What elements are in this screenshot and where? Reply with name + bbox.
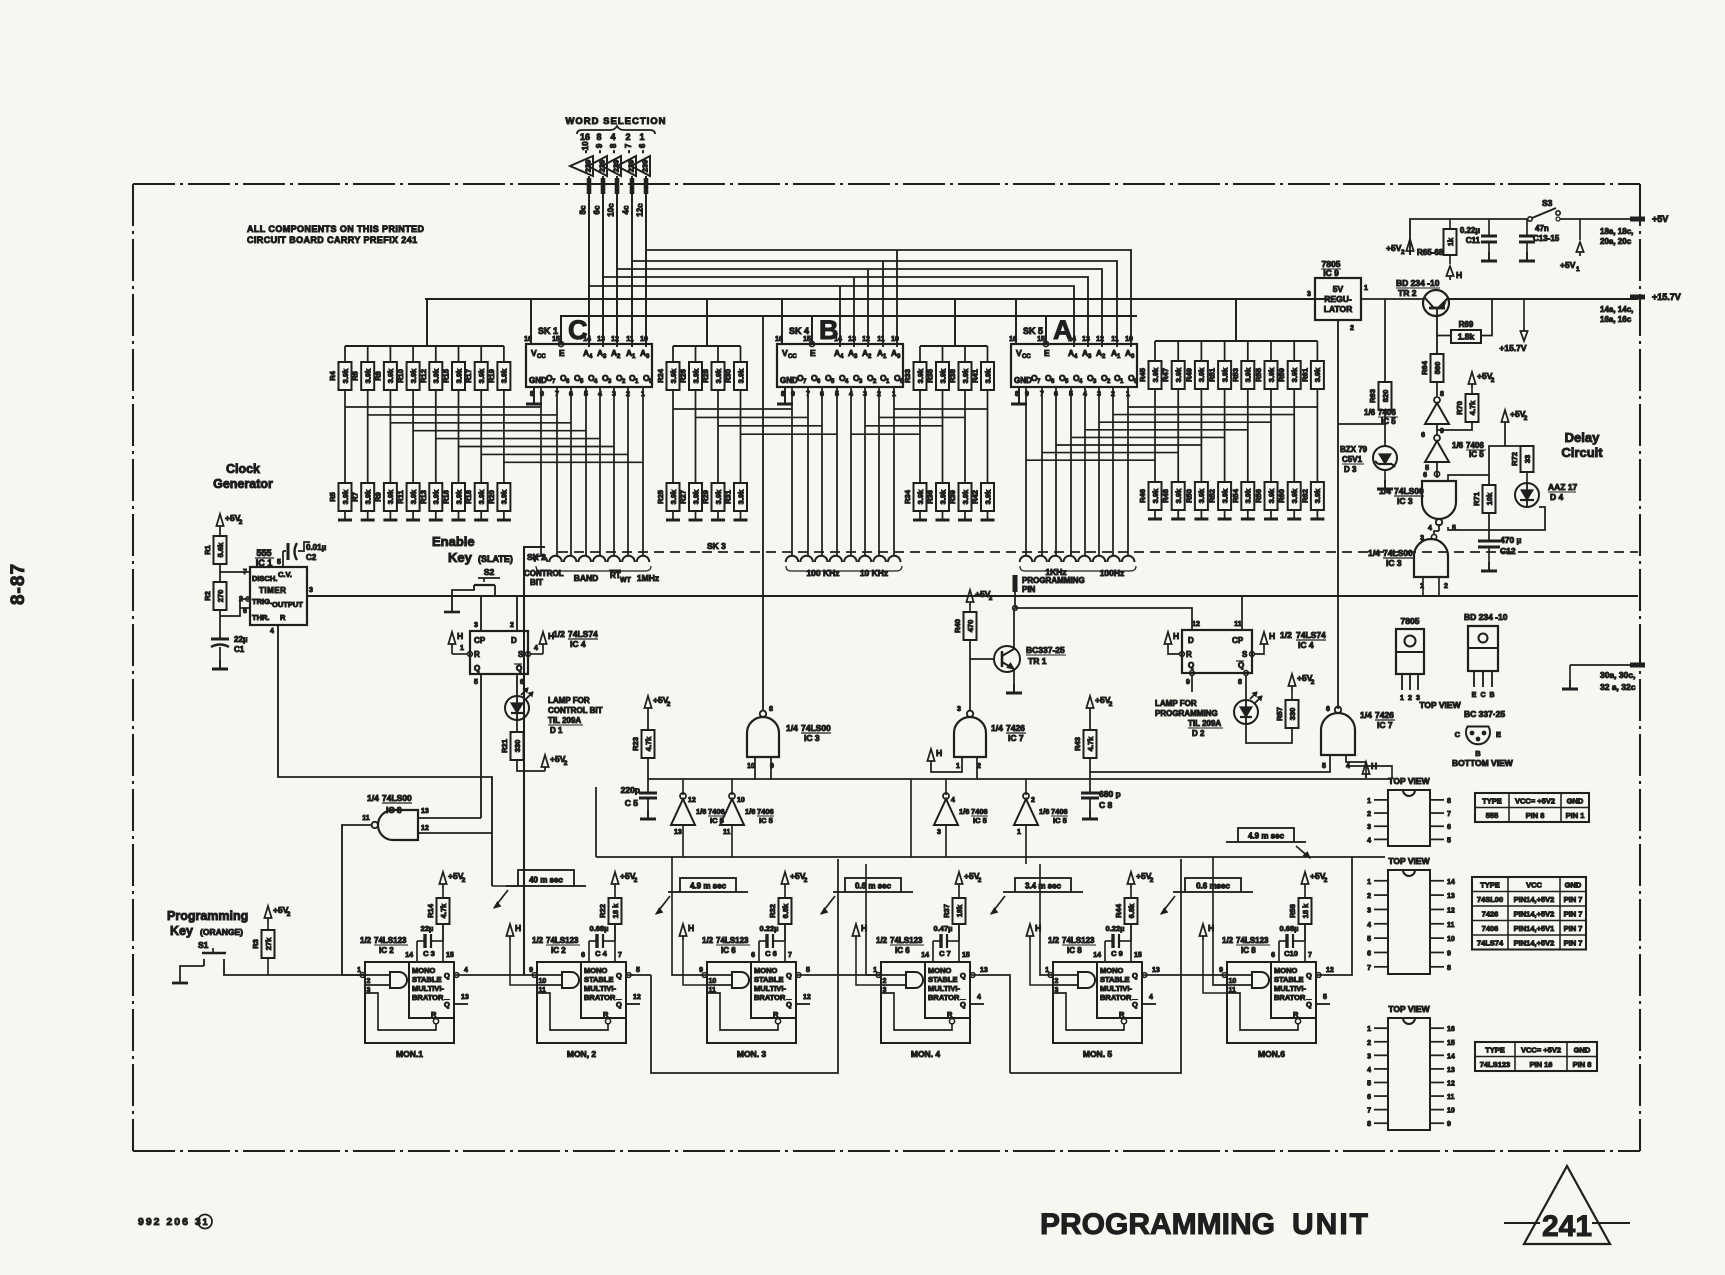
wire address bus bit3 xyxy=(603,277,1088,347)
connector flag 239-10 xyxy=(570,141,593,176)
border frame (dash-dot) xyxy=(133,184,1640,1151)
svg-text:13: 13 xyxy=(848,336,856,343)
inverter 1/6 7406 IC5 (inv12) xyxy=(671,793,695,825)
svg-text:MONO: MONO xyxy=(584,966,607,975)
svg-text:R1: R1 xyxy=(203,545,212,555)
wire 7805 out to TR2 base xyxy=(1361,298,1424,300)
wire link C O1 xyxy=(481,453,628,455)
wire xyxy=(1291,690,1293,700)
ground xyxy=(913,519,927,522)
AND gate (MON, 2 trigger) xyxy=(562,972,579,988)
resistor R32 6.8k xyxy=(768,898,792,924)
svg-text:3.4 m sec: 3.4 m sec xyxy=(1025,882,1062,891)
ground GND pin8 SK 4 xyxy=(784,387,786,404)
resistor R3 27k xyxy=(251,930,275,958)
resistor R4 3.9k xyxy=(328,362,352,390)
ground (D3) xyxy=(1377,480,1393,489)
wire D input from prog node xyxy=(1015,608,1192,630)
top pin wires xyxy=(758,941,760,962)
svg-text:15: 15 xyxy=(962,952,970,959)
svg-text:1: 1 xyxy=(1045,967,1049,974)
terminal H (mon) xyxy=(852,923,867,940)
connector SK2 arcs xyxy=(535,556,548,562)
svg-text:1: 1 xyxy=(1367,1026,1371,1033)
wire B output O6 xyxy=(807,387,809,556)
svg-text:TIMER: TIMER xyxy=(259,586,286,595)
svg-text:1/4: 1/4 xyxy=(1368,548,1380,558)
svg-text:4: 4 xyxy=(1428,525,1432,532)
monostable MON. 3 inner box xyxy=(751,962,796,1018)
svg-text:9: 9 xyxy=(529,967,533,974)
svg-text:3: 3 xyxy=(1055,987,1059,994)
wire xyxy=(344,346,346,362)
resistor R6 3.9k xyxy=(351,362,375,390)
svg-text:S: S xyxy=(1242,650,1248,659)
terminal H (FF1 R) xyxy=(448,631,463,648)
svg-text:14: 14 xyxy=(921,952,929,959)
capacitor C13-15 plates xyxy=(1519,236,1535,242)
terminal +5V1 xyxy=(1576,242,1583,256)
svg-text:R19: R19 xyxy=(487,369,496,383)
gate input wire 1 xyxy=(707,974,732,976)
svg-text:MULTIVI-: MULTIVI- xyxy=(584,984,616,993)
resistor R43 4.7k xyxy=(1073,730,1097,758)
svg-text:8: 8 xyxy=(1447,965,1451,972)
label MONO STABLE MULTIVIBRATOR xyxy=(412,966,450,1019)
svg-text:1: 1 xyxy=(1364,285,1368,292)
wire R40 to TR1 base xyxy=(969,640,971,659)
svg-text:R28: R28 xyxy=(701,369,710,383)
wire NAND in 12 xyxy=(418,832,492,834)
svg-text:3.9k: 3.9k xyxy=(432,368,441,383)
svg-text:1/4: 1/4 xyxy=(786,723,798,733)
connector SK3 arcs B xyxy=(786,556,799,562)
svg-text:2: 2 xyxy=(462,877,466,884)
svg-text:3: 3 xyxy=(1367,1053,1371,1060)
diode D4 AAZ17 xyxy=(1515,483,1539,507)
svg-text:STABLE: STABLE xyxy=(412,975,441,984)
wire xyxy=(1526,472,1528,483)
svg-text:IC 8: IC 8 xyxy=(1067,946,1082,955)
svg-text:3.9k: 3.9k xyxy=(669,489,678,504)
ground (TR1) xyxy=(1006,684,1022,693)
resistor R14 4.7k xyxy=(426,898,450,924)
inverter 1/6 7406 IC5 (inv4) xyxy=(934,793,958,825)
svg-text:74LS00: 74LS00 xyxy=(801,723,831,733)
svg-text:+15.7V: +15.7V xyxy=(1499,343,1527,353)
svg-text:470: 470 xyxy=(966,620,975,633)
svg-text:2: 2 xyxy=(510,622,514,629)
wire xyxy=(1247,341,1249,361)
svg-text:2: 2 xyxy=(1491,377,1495,384)
wire res top xyxy=(442,888,444,898)
wire MON2 Q right xyxy=(631,974,651,976)
wire divider column xyxy=(503,390,505,483)
svg-text:BC337-25: BC337-25 xyxy=(1026,645,1065,655)
wire Q output MON. 4 xyxy=(970,974,978,976)
wire xyxy=(367,511,369,520)
wire H down xyxy=(856,940,881,985)
svg-text:3.9k: 3.9k xyxy=(341,368,350,383)
wire xyxy=(695,346,697,362)
ground xyxy=(1264,518,1278,521)
svg-text:7: 7 xyxy=(1308,952,1312,959)
wire programming pin down to node xyxy=(1014,592,1016,608)
wire left bank top rail xyxy=(345,345,504,347)
svg-text:0.68µ: 0.68µ xyxy=(590,924,609,933)
resistor R2 270 xyxy=(203,582,227,610)
resistor R27 3.9k xyxy=(679,483,703,511)
wire C output O5 xyxy=(570,387,572,556)
svg-text:PIN 1: PIN 1 xyxy=(1566,811,1585,820)
wire xyxy=(367,346,369,362)
svg-text:15: 15 xyxy=(1447,1040,1455,1047)
svg-text:5.6k: 5.6k xyxy=(216,542,225,557)
svg-text:D: D xyxy=(511,636,517,645)
svg-text:3: 3 xyxy=(1367,907,1371,914)
svg-text:11: 11 xyxy=(877,336,885,343)
wire link C O4 xyxy=(413,430,586,432)
svg-text:8-87: 8-87 xyxy=(8,563,29,605)
capacitor C 3 22&#181; xyxy=(417,940,424,942)
wire link B O2 xyxy=(865,425,943,427)
svg-text:7426: 7426 xyxy=(1482,910,1499,919)
transistor TR2 BD234-10 xyxy=(1423,290,1449,316)
ground xyxy=(711,519,725,522)
wire VCC pin16 SK 4 xyxy=(781,299,783,344)
svg-text:STABLE: STABLE xyxy=(1274,975,1303,984)
svg-text:PROGRAMMING: PROGRAMMING xyxy=(1155,709,1218,718)
capacitor C8 680p xyxy=(1081,793,1099,798)
svg-text:5: 5 xyxy=(1322,763,1326,770)
svg-text:LAMP FOR: LAMP FOR xyxy=(1155,699,1197,708)
wire link C O5 xyxy=(390,422,571,424)
gate input wire 3 loop xyxy=(537,993,608,1030)
monostable block MON, 2 outer xyxy=(537,962,626,1043)
gate input wire 1 xyxy=(1227,974,1252,976)
svg-text:2: 2 xyxy=(1367,811,1371,818)
svg-text:11: 11 xyxy=(1447,922,1455,929)
wire xyxy=(919,346,921,362)
ground xyxy=(1218,518,1232,521)
wire xyxy=(219,530,221,536)
wire divider column xyxy=(1177,389,1179,482)
top pin wires xyxy=(932,941,934,962)
svg-text:4: 4 xyxy=(610,132,615,142)
wire 7805 gnd down xyxy=(1337,320,1339,596)
svg-text:3.9k: 3.9k xyxy=(409,368,418,383)
resistor R34 3.9k xyxy=(903,483,927,511)
svg-text:3.9k: 3.9k xyxy=(500,489,509,504)
svg-text:R53: R53 xyxy=(1231,368,1240,382)
svg-text:PIN14,+5V​2: PIN14,+5V​2 xyxy=(1514,939,1555,948)
wire res top xyxy=(614,888,616,898)
resistor R41 3.9k xyxy=(971,362,995,390)
IC voltage regulator 7805 IC9 xyxy=(1307,278,1368,332)
svg-text:Q: Q xyxy=(444,971,450,980)
wire C output O7 xyxy=(540,387,542,556)
svg-text:2: 2 xyxy=(1150,877,1154,884)
wire xyxy=(458,511,460,520)
svg-text:5: 5 xyxy=(1447,837,1451,844)
wire 30a stub down xyxy=(1569,665,1571,680)
svg-text:4: 4 xyxy=(951,797,955,804)
resistor R50 3.9k xyxy=(1184,482,1208,510)
svg-text:13: 13 xyxy=(421,808,429,815)
svg-text:C12: C12 xyxy=(1500,546,1516,556)
svg-text:Q: Q xyxy=(1306,1000,1312,1009)
svg-text:C: C xyxy=(1480,692,1485,699)
svg-text:Q: Q xyxy=(516,664,522,673)
wire A output O4 xyxy=(1070,387,1072,556)
resistor R11 3.9k xyxy=(396,483,420,511)
svg-text:40 m sec: 40 m sec xyxy=(529,876,563,885)
svg-text:MON. 5: MON. 5 xyxy=(1083,1049,1113,1059)
wire D3 to ground xyxy=(1384,470,1386,480)
svg-text:2: 2 xyxy=(564,760,568,767)
svg-text:10: 10 xyxy=(891,336,899,343)
gate input wire 2 xyxy=(707,984,732,986)
feedthrough stub line 3 xyxy=(615,178,620,194)
svg-text:3.9k: 3.9k xyxy=(454,368,463,383)
wire 7426 out up xyxy=(969,659,971,711)
wire E enable line C-B xyxy=(652,315,812,317)
arrow to MON6 xyxy=(1296,846,1310,858)
resistor R58 18 k xyxy=(1288,898,1312,924)
svg-text:MON, 2: MON, 2 xyxy=(567,1049,597,1059)
wire right bank top rail xyxy=(1155,340,1317,342)
wire res top xyxy=(1304,888,1306,898)
wire divider column xyxy=(672,390,674,483)
svg-text:3.9k: 3.9k xyxy=(477,489,486,504)
svg-text:Q: Q xyxy=(616,971,622,980)
svg-text:5: 5 xyxy=(277,559,281,566)
capacitor C5 220p xyxy=(639,793,657,798)
svg-text:2: 2 xyxy=(1350,325,1354,332)
svg-text:7406: 7406 xyxy=(1051,807,1068,816)
terminal +5V2 (R22) xyxy=(611,871,637,888)
wire bus drop to B xyxy=(896,250,898,347)
svg-text:H: H xyxy=(1269,631,1275,641)
svg-text:14: 14 xyxy=(1447,1053,1455,1060)
terminal H (7426) xyxy=(927,748,942,765)
resistor R8 3.9k xyxy=(373,362,397,390)
svg-text:R22: R22 xyxy=(598,904,607,918)
wire link B O0 xyxy=(894,408,988,410)
wire divider column xyxy=(1224,389,1226,482)
wire C8 to ground xyxy=(1089,798,1091,810)
wire xyxy=(1316,510,1318,519)
wire R71/D4 bottoms join xyxy=(1489,507,1545,530)
label MONO STABLE MULTIVIBRATOR xyxy=(1274,966,1312,1019)
wire xyxy=(1200,341,1202,361)
annotation 0.6 msec pulse xyxy=(1161,878,1253,914)
svg-text:IC 6: IC 6 xyxy=(895,946,910,955)
wire divider column xyxy=(740,390,742,483)
resistor R57 330 xyxy=(1275,700,1299,728)
svg-text:R45: R45 xyxy=(1138,368,1147,382)
wire res top xyxy=(1130,888,1132,898)
zener diode D3 BZX79 C5V1 xyxy=(1373,446,1397,470)
svg-text:R33: R33 xyxy=(903,369,912,383)
terminal H (mon) xyxy=(679,923,694,940)
wire 555 pin4 down-right xyxy=(278,625,492,886)
wire xyxy=(964,511,966,520)
wire word-select line 1 xyxy=(588,176,590,347)
svg-text:12c: 12c xyxy=(636,203,645,217)
svg-text:74LS00: 74LS00 xyxy=(382,793,412,803)
svg-text:1/6: 1/6 xyxy=(1364,408,1376,417)
svg-text:S: S xyxy=(518,650,524,659)
ground xyxy=(1241,518,1255,521)
svg-text:3: 3 xyxy=(937,829,941,836)
svg-text:2: 2 xyxy=(1367,1040,1371,1047)
svg-text:11: 11 xyxy=(1447,1094,1455,1101)
capacitor C 6 0.22&#181; xyxy=(759,940,766,942)
svg-text:H: H xyxy=(1456,270,1462,280)
svg-text:R: R xyxy=(603,1010,609,1019)
svg-text:16a, 16c: 16a, 16c xyxy=(1600,315,1632,324)
terminal +5V2 (top) xyxy=(1406,239,1413,255)
svg-text:2: 2 xyxy=(1324,877,1328,884)
resistor R49 3.9k xyxy=(1184,361,1208,389)
IC flip-flop 1/2 74LS74 IC4 (programming) xyxy=(1180,621,1255,686)
terminal H (FF2 R) xyxy=(1164,631,1179,648)
svg-text:CC: CC xyxy=(788,354,797,360)
svg-text:4: 4 xyxy=(1149,994,1153,1001)
svg-text:2: 2 xyxy=(287,911,291,918)
svg-text:R50: R50 xyxy=(1184,489,1193,503)
svg-text:+15.7V: +15.7V xyxy=(1652,292,1681,302)
resistor R23 4.7k xyxy=(631,730,655,758)
wire xyxy=(1360,762,1366,778)
svg-text:13: 13 xyxy=(1447,1067,1455,1074)
resistor R45 3.9k xyxy=(1138,361,1162,389)
wire xyxy=(695,511,697,520)
svg-text:BRATOR: BRATOR xyxy=(1100,993,1132,1002)
svg-text:12: 12 xyxy=(1326,967,1334,974)
svg-text:+5V: +5V xyxy=(1652,214,1668,224)
wire xyxy=(451,648,453,654)
IC flip-flop 1/2 74LS74 IC4 (control) xyxy=(460,622,538,686)
wire B output O2 xyxy=(864,387,866,556)
svg-text:C: C xyxy=(1455,730,1461,739)
svg-text:12: 12 xyxy=(688,797,696,804)
ground (30a) xyxy=(1562,680,1578,689)
svg-text:3.9k: 3.9k xyxy=(1244,367,1253,382)
wire divider column xyxy=(919,390,921,483)
svg-text:TOP VIEW: TOP VIEW xyxy=(1419,700,1461,710)
svg-text:3.9k: 3.9k xyxy=(1313,367,1322,382)
wire res top xyxy=(784,888,786,898)
svg-text:7406: 7406 xyxy=(1482,924,1499,933)
resistor R25 3.9k xyxy=(656,483,680,511)
feedthrough stub line 5 xyxy=(644,178,649,194)
svg-text:STABLE: STABLE xyxy=(1100,975,1129,984)
svg-text:6.8k: 6.8k xyxy=(1127,903,1136,918)
gate input wire 1 xyxy=(881,974,906,976)
svg-text:Q: Q xyxy=(474,664,480,673)
wire NAND d2 inputs to rail xyxy=(1422,577,1424,596)
svg-text:14: 14 xyxy=(405,952,413,959)
wire res bottom xyxy=(958,924,960,941)
wire xyxy=(717,346,719,362)
svg-text:MONO: MONO xyxy=(1100,966,1123,975)
svg-text:74LS123: 74LS123 xyxy=(890,936,923,945)
svg-text:3.9k: 3.9k xyxy=(364,489,373,504)
monostable block MON. 3 outer xyxy=(707,962,796,1043)
wire Qbar output MON. 4 xyxy=(970,1003,984,1005)
svg-text:LATOR: LATOR xyxy=(1324,304,1353,314)
svg-text:22µ: 22µ xyxy=(234,635,248,644)
wire C output O1 xyxy=(627,387,629,556)
gate output wire xyxy=(923,979,925,981)
label MONO STABLE MULTIVIBRATOR xyxy=(584,966,622,1019)
svg-text:3.9k: 3.9k xyxy=(477,368,486,383)
ground (C11) xyxy=(1481,252,1497,261)
svg-text:18 k: 18 k xyxy=(1301,903,1310,918)
svg-text:3.9k: 3.9k xyxy=(1220,488,1229,503)
gate output wire xyxy=(407,979,409,981)
wire R69 right to rail xyxy=(1480,299,1492,336)
svg-text:3.9k: 3.9k xyxy=(1290,367,1299,382)
svg-text:E: E xyxy=(559,348,565,358)
svg-text:D 4: D 4 xyxy=(1550,492,1564,502)
wire lower link MON4-MON5 xyxy=(1010,859,1181,1073)
wire link A O1 xyxy=(1113,414,1294,416)
resistor R65-68 1k xyxy=(1449,219,1451,229)
svg-text:4.7k: 4.7k xyxy=(1468,400,1477,415)
svg-text:4.9 m sec: 4.9 m sec xyxy=(1248,832,1285,841)
wire xyxy=(740,346,742,362)
wire R2 bottom to pin6/2 xyxy=(220,608,250,616)
wire TR1 emitter to ground xyxy=(1013,669,1015,684)
wire xyxy=(1471,388,1473,394)
svg-text:3.9k: 3.9k xyxy=(691,489,700,504)
svg-text:3.9k: 3.9k xyxy=(1220,367,1229,382)
terminal +5V2 (R23) xyxy=(644,695,670,712)
svg-text:PIN 7: PIN 7 xyxy=(1564,895,1583,904)
svg-text:IC 8: IC 8 xyxy=(1241,946,1256,955)
wire D2 to R57 xyxy=(1246,724,1292,743)
ground xyxy=(361,519,375,522)
wire link B O4 xyxy=(741,433,838,435)
wire pin2 jog xyxy=(240,599,250,608)
wire word-select line 4 xyxy=(631,176,633,347)
svg-text:2: 2 xyxy=(625,132,630,142)
svg-text:C 3: C 3 xyxy=(423,949,435,958)
svg-text:R54: R54 xyxy=(1231,488,1240,503)
R pin bubble xyxy=(949,1019,954,1024)
svg-text:3.9k: 3.9k xyxy=(386,368,395,383)
wire inverter in top xyxy=(1025,779,1027,795)
svg-text:Q: Q xyxy=(960,971,966,980)
svg-text:R48: R48 xyxy=(1161,489,1170,503)
wire xyxy=(267,922,269,930)
wire link A O4 xyxy=(1071,436,1225,438)
svg-text:R2: R2 xyxy=(203,591,212,601)
svg-text:MULTIVI-: MULTIVI- xyxy=(754,984,786,993)
wire xyxy=(1316,341,1318,361)
svg-text:8: 8 xyxy=(769,706,773,713)
svg-text:Q: Q xyxy=(786,1000,792,1009)
monostable MON. 5 inner box xyxy=(1097,962,1142,1018)
wire inverter in top xyxy=(945,779,947,795)
resistor R52 3.9k xyxy=(1208,482,1232,510)
svg-text:3: 3 xyxy=(367,987,371,994)
svg-text:2: 2 xyxy=(239,596,243,603)
capacitor C 9 0.22&#181; xyxy=(1105,940,1112,942)
